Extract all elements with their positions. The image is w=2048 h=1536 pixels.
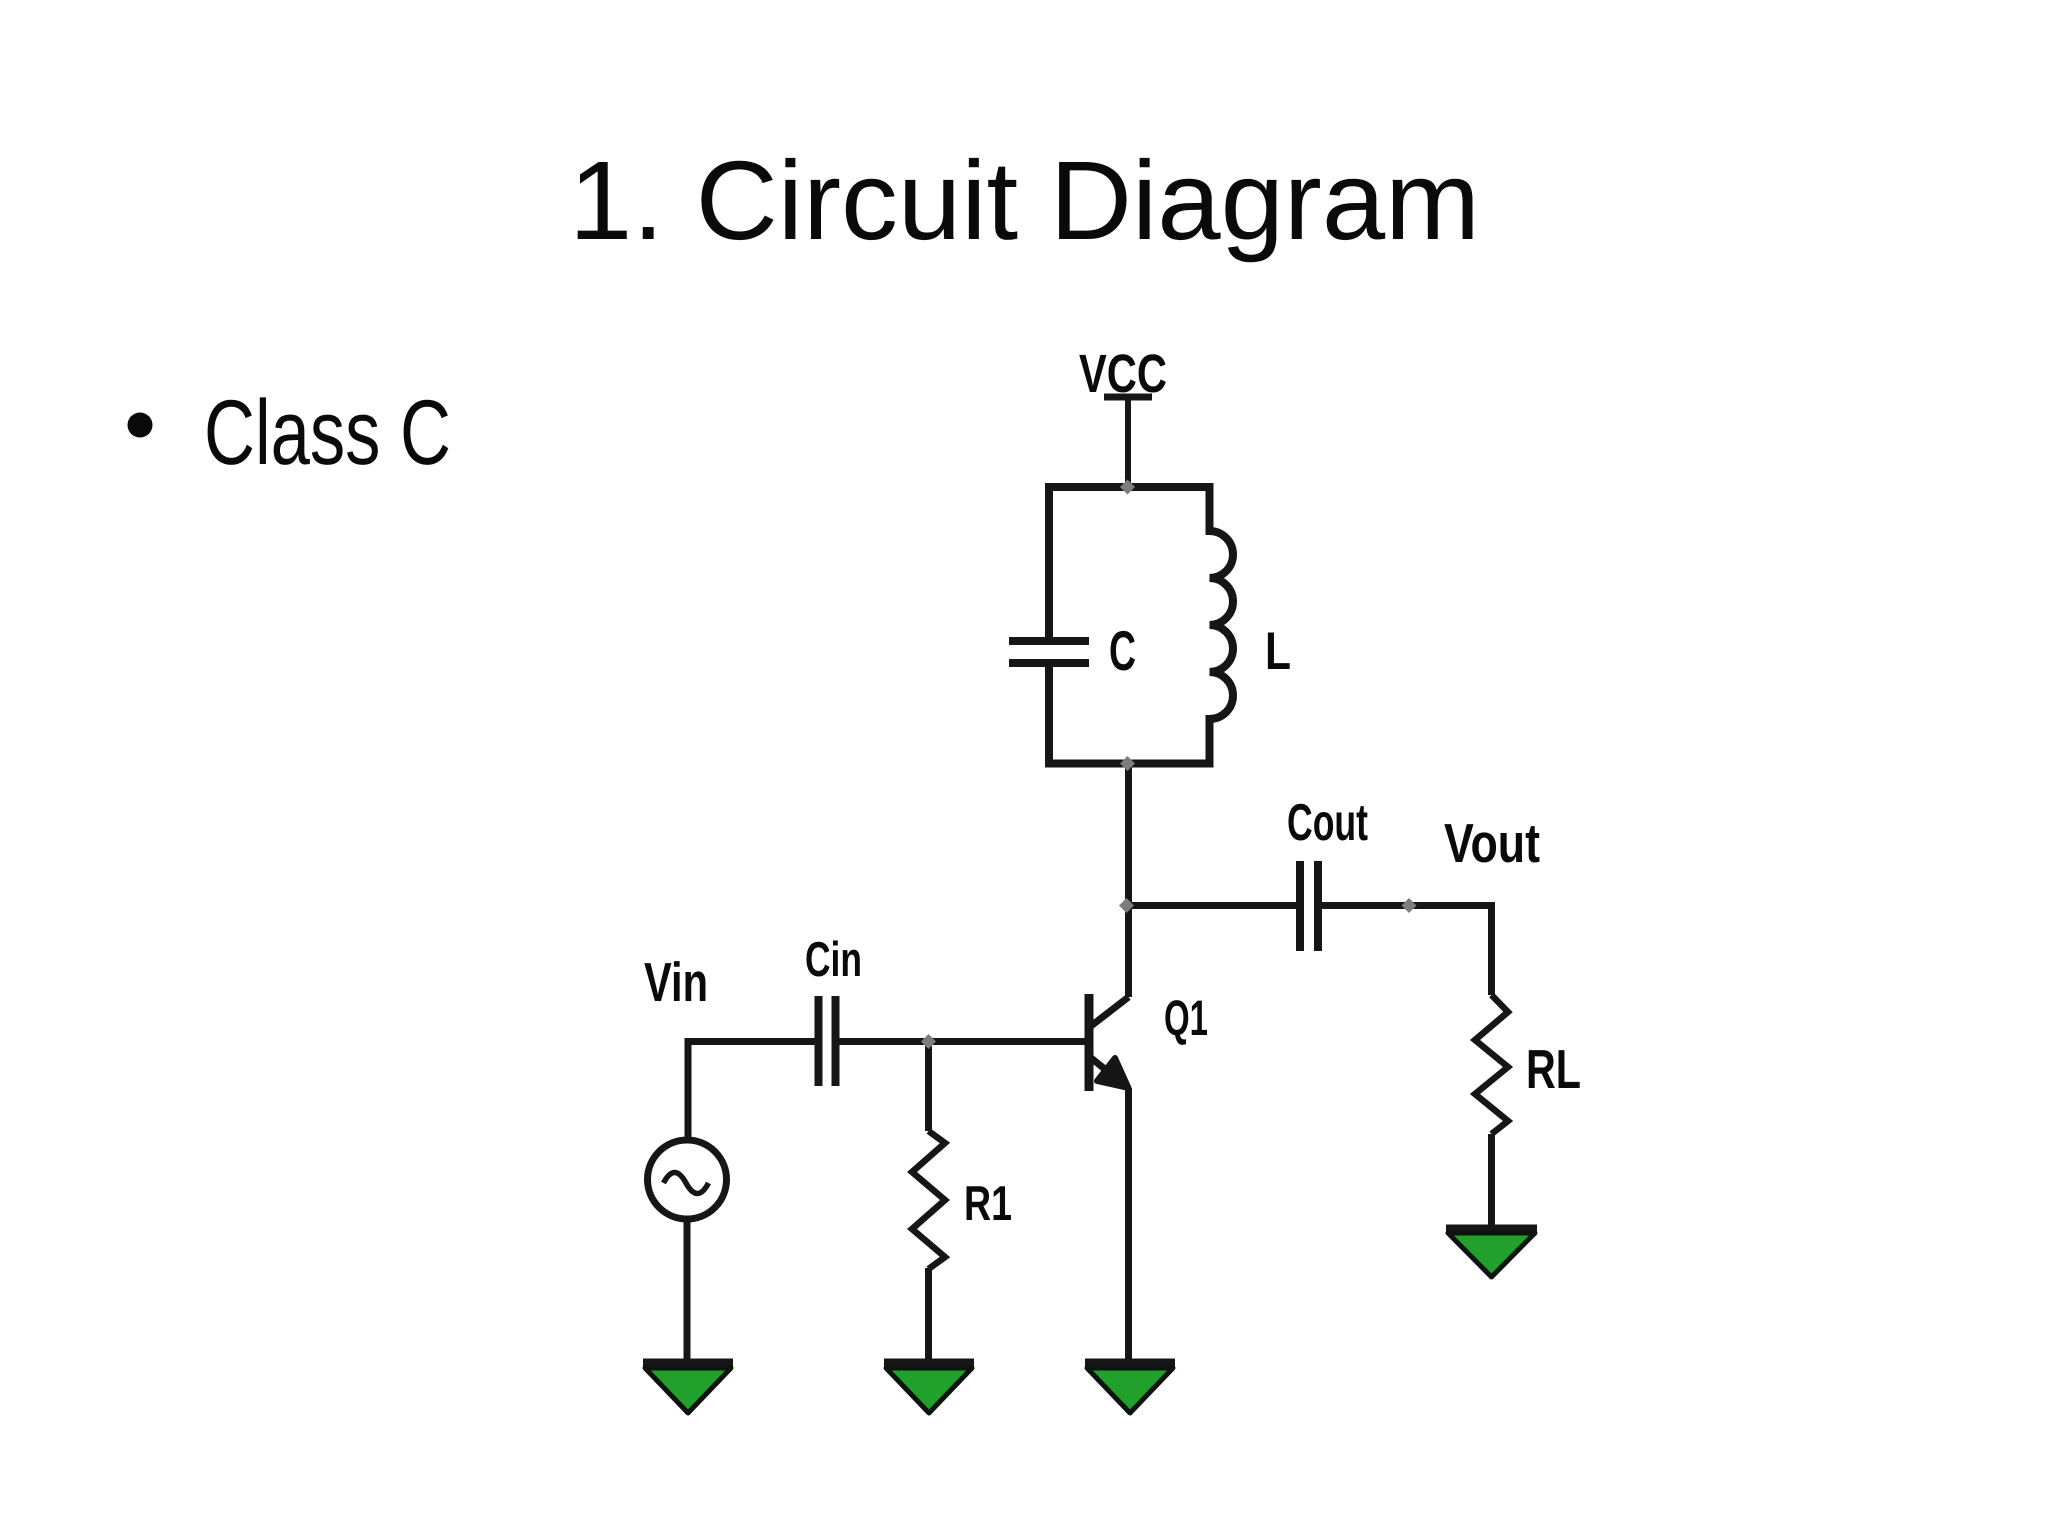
wire RL to ground xyxy=(1488,1134,1495,1228)
node dot tank top xyxy=(1120,480,1135,495)
svg-text:1. Circuit Diagram: 1. Circuit Diagram xyxy=(569,138,1480,263)
node dot Vout xyxy=(1402,898,1417,913)
wire Vin input xyxy=(688,1042,815,1141)
svg-text:Vin: Vin xyxy=(644,951,708,1013)
transistor Q1 base bar xyxy=(1085,994,1094,1091)
resistor R1 lead xyxy=(925,1042,932,1132)
svg-text:Q1: Q1 xyxy=(1164,990,1208,1046)
svg-text:Cin: Cin xyxy=(805,933,862,987)
bullet xyxy=(128,413,153,438)
svg-text:Vout: Vout xyxy=(1444,812,1540,874)
ground (RL) xyxy=(1446,1229,1537,1277)
svg-text:L: L xyxy=(1265,622,1291,681)
VCC power symbol xyxy=(1104,397,1152,489)
capacitor Cout plates xyxy=(1300,861,1318,951)
wire Cout to Vout corner xyxy=(1318,906,1492,996)
wire source to ground xyxy=(684,1222,691,1363)
capacitor C plates xyxy=(1009,641,1089,663)
source Vin circle xyxy=(648,1140,727,1219)
transistor Q1 collector diagonal xyxy=(1091,997,1129,1026)
transistor Q1 emitter arrow xyxy=(1097,1058,1129,1088)
wire collector to Cout xyxy=(1125,902,1299,909)
wire R1 to ground xyxy=(925,1268,932,1363)
svg-text:RL: RL xyxy=(1526,1038,1581,1100)
ground (R1) xyxy=(884,1363,974,1413)
transistor Q1 emitter diagonal xyxy=(1091,1058,1129,1088)
svg-text:VCC: VCC xyxy=(1079,344,1167,404)
ground (source) xyxy=(643,1363,733,1413)
wire Cin to base xyxy=(836,1038,1086,1045)
svg-text:Class C: Class C xyxy=(204,382,451,484)
wire collector vertical xyxy=(1125,764,1132,998)
capacitor Cin plates xyxy=(819,996,836,1086)
svg-text:Cout: Cout xyxy=(1287,794,1368,852)
ground (emitter) xyxy=(1085,1363,1175,1413)
node dot base xyxy=(921,1034,936,1049)
resistor R1 zigzag xyxy=(912,1131,945,1269)
wire emitter to ground xyxy=(1125,1088,1132,1363)
source sine symbol xyxy=(664,1173,709,1194)
resistor RL zigzag xyxy=(1475,995,1508,1134)
svg-text:C: C xyxy=(1109,619,1136,682)
node dot tank bottom xyxy=(1120,756,1135,771)
node dot collector xyxy=(1119,898,1134,913)
tank loop wire (C branch + top + bottom) xyxy=(1049,487,1233,764)
svg-text:R1: R1 xyxy=(964,1177,1012,1231)
